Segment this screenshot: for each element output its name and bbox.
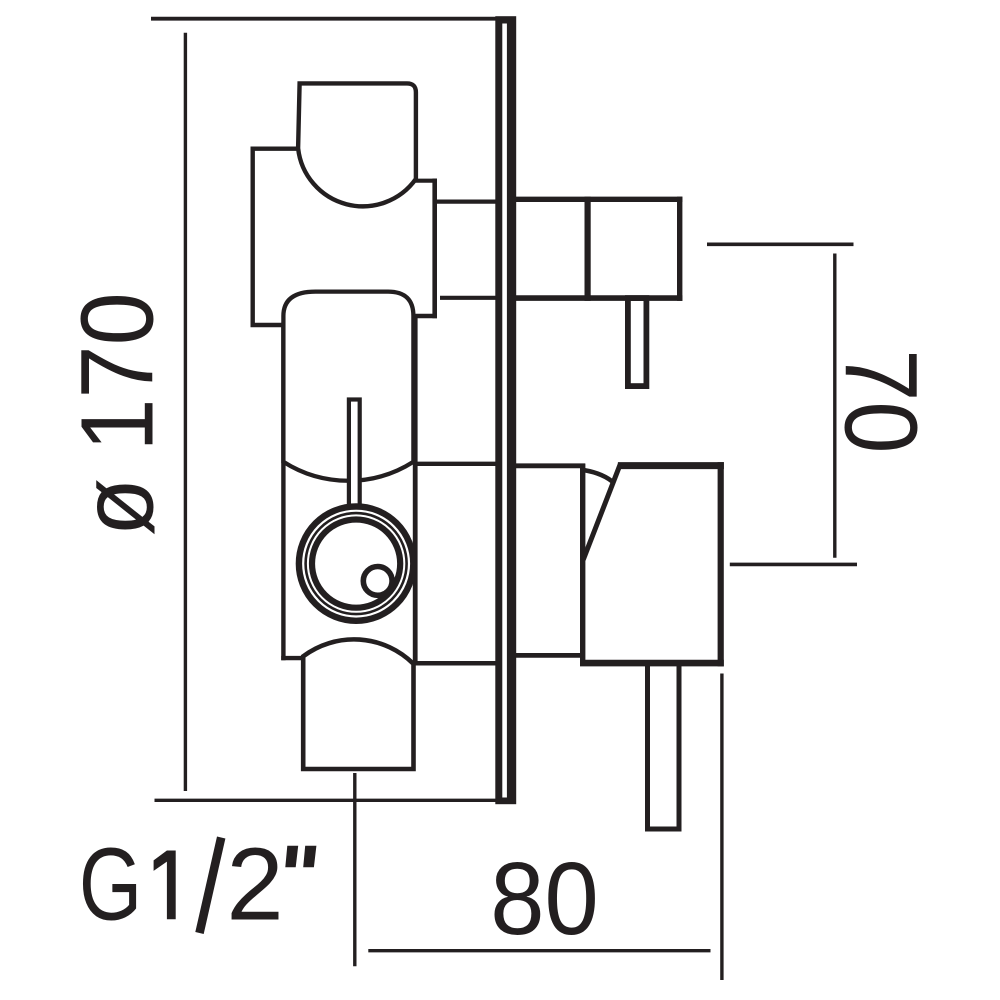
mid connector line right of plate [514,463,585,468]
bottom connector line right of plate [514,653,585,658]
lower valve stem [648,663,680,829]
dimension 80 left leader line [353,773,356,966]
cartridge sleeve capsule [283,292,413,481]
label 1 (of G1/2") [154,851,176,920]
top handle stem [628,298,647,386]
top handle top edge [510,197,682,202]
top handle right edge [677,197,682,301]
mid connector line left of plate [413,462,498,466]
diverter pin [349,400,360,508]
port bottom line body-to-plate [440,296,498,300]
bottom connector line left of plate [413,661,498,666]
wall plate inner slot [502,24,507,798]
dimension 80 horizontal dimension line [368,949,710,952]
svg-text:70: 70 [824,349,939,453]
knob outer ring [299,506,413,620]
knob button small circle [363,567,392,596]
dimension 70 top extension line [707,243,854,247]
lower valve right edge [718,462,724,666]
dimension ø170 vertical dimension line [184,33,187,791]
valve body top edge left segment [251,146,301,150]
port top line body-to-plate [437,200,499,204]
top outlet shield [298,83,416,206]
valve body left step [251,323,286,327]
svg-text:80: 80 [490,841,599,956]
lower valve bottom edge [580,660,724,667]
dimension 70 vertical dimension line [833,254,836,558]
valve body right shoulder [413,314,437,318]
label slash (of G1/2") [200,838,222,934]
lower valve top edge [618,462,724,469]
top handle bottom edge [510,295,682,301]
valve body bottom left corner segment [281,656,303,660]
valve body lower left edge [281,323,285,661]
bottom outlet pipe [303,639,413,769]
dimension ø170 bottom extension line [155,799,498,802]
lower valve lever diagonal [583,463,620,560]
svg-text:2: 2 [226,826,283,941]
knob inner ring [312,520,400,608]
valve body upper left edge [250,147,254,328]
dimension 70 bottom extension line [730,563,857,567]
dimension 80 right leader line [720,674,723,981]
lower valve collar arc [584,470,615,484]
knob middle ring [306,513,407,614]
svg-text:ø 170: ø 170 [59,292,174,536]
valve body lower right edge [413,314,418,664]
dimension ø170 top extension line [151,17,497,21]
svg-text:G: G [79,826,142,941]
lower valve left edge [580,464,585,666]
wall plate [495,16,516,804]
valve body upper right edge [432,179,437,319]
label inch quote (of G1/2") [285,846,316,867]
shield-to-body top connector segment [414,179,438,183]
top handle divider [584,197,590,301]
